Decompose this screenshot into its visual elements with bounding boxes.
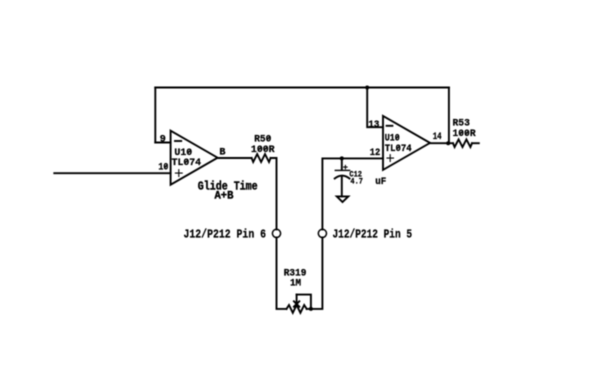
wire branch to pin 13 — [367, 88, 383, 128]
ground symbol — [337, 196, 349, 202]
op-amp U10 right triangle — [383, 116, 430, 170]
svg-text:TL074: TL074 — [385, 144, 412, 155]
svg-text:R50: R50 — [254, 135, 271, 146]
wire R319 to J12 pin 5 — [307, 237, 323, 309]
svg-text:1M: 1M — [290, 278, 301, 289]
svg-text:uF: uF — [375, 177, 386, 188]
wire pin 5 up to pin 12 — [322, 158, 383, 229]
capacitor C12 polarity plus — [344, 165, 347, 168]
wire input to pin 10 — [54, 172, 170, 174]
svg-text:14: 14 — [433, 132, 442, 143]
junction dot feedback top node — [365, 86, 369, 90]
svg-text:100R: 100R — [453, 129, 477, 140]
wire op-amp1 output to R50 — [218, 157, 252, 159]
svg-text:TL074: TL074 — [172, 158, 202, 169]
svg-text:R53: R53 — [453, 119, 470, 130]
op-amp U10 left minus — [175, 140, 181, 142]
R319 wiper arrow — [294, 295, 299, 307]
wire op-amp2 output — [430, 142, 453, 144]
resistor R50 — [252, 154, 271, 162]
junction dot C12 node — [340, 156, 344, 160]
op-amp U10 right plus — [387, 155, 394, 162]
svg-text:A+B: A+B — [215, 191, 234, 203]
wire feedback top — [155, 87, 449, 89]
wire pin 6 down to R319 — [277, 237, 287, 309]
svg-text:J12/P212 Pin 5: J12/P212 Pin 5 — [333, 227, 413, 241]
junction dot output node — [446, 141, 450, 145]
capacitor C12 bottom plate — [335, 176, 350, 179]
svg-text:J12/P212 Pin 6: J12/P212 Pin 6 — [184, 228, 267, 242]
svg-text:13: 13 — [368, 120, 379, 131]
potentiometer R319 zigzag — [287, 305, 307, 313]
connector circle J12/P212 Pin 6 — [272, 229, 280, 237]
op-amp U10 right minus — [387, 125, 393, 127]
svg-text:9: 9 — [160, 134, 166, 145]
op-amp U10 left plus — [175, 170, 182, 177]
wire pin 9 stub — [155, 142, 170, 144]
wire R50 to J12 pin 6 — [271, 158, 277, 229]
capacitor C12 top lead — [341, 158, 343, 170]
wire feedback right vertical — [448, 88, 450, 144]
R319 wiper loop wire — [297, 295, 311, 309]
svg-text:12: 12 — [370, 148, 381, 159]
op-amp U10 left triangle — [171, 131, 218, 185]
slashed zero marks — [164, 130, 468, 168]
svg-text:4.7: 4.7 — [350, 177, 363, 187]
wire feedback left vertical — [154, 88, 156, 143]
resistor R53 — [453, 139, 472, 147]
wire output stub — [472, 142, 479, 144]
capacitor C12 top plate — [335, 169, 349, 171]
junction dot R319 wiper — [309, 307, 313, 311]
svg-text:100R: 100R — [251, 145, 276, 156]
capacitor C12 bottom lead — [341, 177, 343, 197]
connector circle J12/P212 Pin 5 — [318, 229, 326, 237]
svg-text:B: B — [219, 148, 225, 159]
